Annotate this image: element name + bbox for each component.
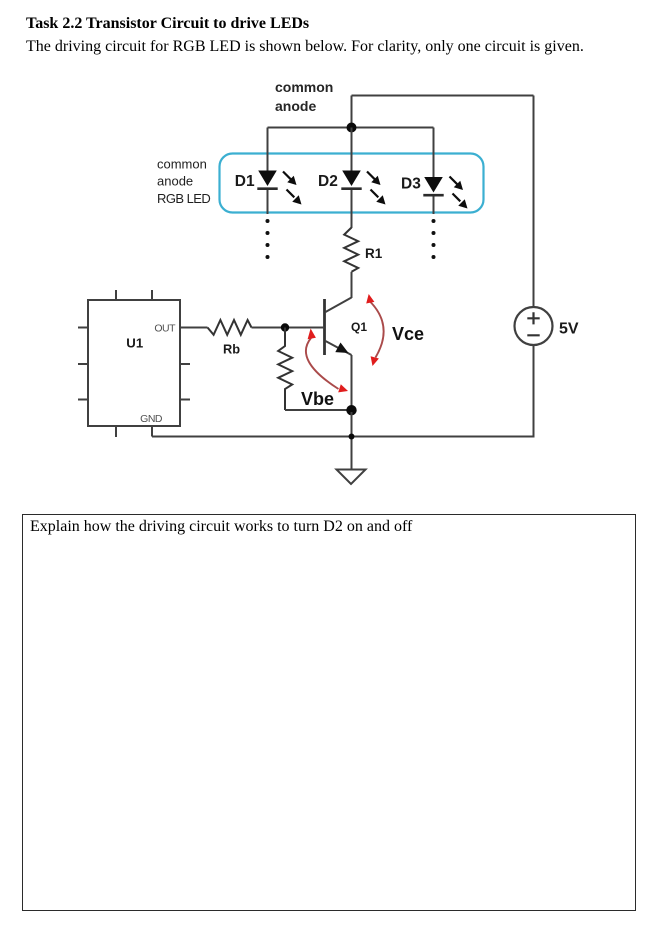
wire: common anode bus (268, 127, 434, 129)
svg-text:Vce: Vce (392, 324, 424, 344)
svg-text:anode: anode (157, 174, 193, 189)
label: common anode RGB LED (157, 157, 210, 207)
svg-text:Rb: Rb (223, 342, 240, 357)
wire: Rb to base node (252, 327, 325, 329)
label: D3 (401, 176, 421, 193)
wire: U1 OUT to Rb (180, 327, 208, 329)
label: common anode (top) (275, 79, 333, 114)
svg-text:Vbe: Vbe (301, 389, 334, 409)
wire: Q1 emitter down to emitter node (351, 355, 353, 412)
wire: D2 anode to top rail (351, 96, 353, 128)
node: ground rail junction (349, 434, 355, 440)
measurement arrow Vce (366, 294, 383, 366)
resistor R1 (344, 228, 358, 272)
label: OUT pin (154, 323, 176, 335)
resistor: base pull-down (278, 328, 292, 411)
svg-text:U1: U1 (126, 336, 143, 351)
wire: top rail from D2 to right side (352, 95, 534, 97)
measurement arrow Vbe (306, 329, 348, 393)
svg-text:D3: D3 (401, 176, 421, 193)
svg-text:OUT: OUT (154, 323, 176, 335)
ground symbol (337, 470, 366, 485)
transistor Q1 (325, 298, 352, 356)
wire: right rail down to 5V source (533, 96, 535, 308)
svg-text:Q1: Q1 (351, 320, 367, 334)
continuation dots below D1 (266, 219, 270, 259)
node: common anode junction (347, 123, 357, 133)
svg-text:GND: GND (140, 413, 163, 425)
resistor Rb (208, 320, 252, 335)
svg-text:R1: R1 (365, 246, 383, 261)
svg-text:RGB LED: RGB LED (157, 191, 210, 206)
label: Vbe (301, 389, 334, 409)
continuation dots below D3 (432, 219, 436, 259)
node: base junction (281, 323, 289, 331)
wire: emitter node to ground (351, 412, 353, 470)
node: emitter junction (346, 405, 356, 415)
label: R1 (365, 246, 383, 261)
label: U1 (126, 336, 143, 351)
IC U1 (78, 290, 190, 437)
LED D2 (341, 128, 385, 229)
wire: bottom ground rail (152, 436, 534, 438)
wire: 5V source to bottom rail (533, 345, 535, 438)
LED D1 (257, 128, 301, 215)
wire: R1 to Q1 collector (351, 272, 353, 298)
svg-text:D2: D2 (318, 173, 338, 190)
svg-text:common: common (275, 79, 333, 95)
label: D2 (318, 173, 338, 190)
label: Rb (223, 342, 240, 357)
svg-text:D1: D1 (235, 173, 255, 190)
highlight box around RGB LEDs (220, 154, 484, 213)
label: Q1 (351, 320, 367, 334)
label: GND pin (140, 413, 163, 425)
label: Vce (392, 324, 424, 344)
voltage source V1 (515, 307, 553, 345)
wire: U1 GND pin to ground rail (151, 426, 153, 437)
svg-text:5V: 5V (559, 321, 579, 338)
label: D1 (235, 173, 255, 190)
LED D3 (423, 128, 467, 215)
svg-text:common: common (157, 157, 207, 172)
svg-text:anode: anode (275, 98, 316, 114)
label: 5V (559, 321, 579, 338)
wire: pull-down resistor to emitter node (285, 409, 352, 411)
